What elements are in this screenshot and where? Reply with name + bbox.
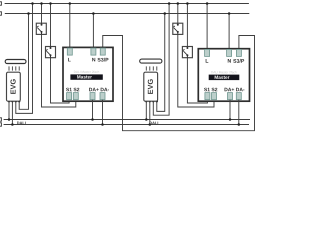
U2 faint product text bbox=[211, 71, 236, 73]
junction dot DA- bus x238 bbox=[238, 123, 241, 126]
U1 terminal S2 bbox=[73, 93, 78, 100]
wire EVG2 DA- bbox=[149, 101, 151, 124]
junction dot L rail x50.5 bbox=[49, 2, 52, 5]
U1 terminal S1 bbox=[67, 93, 72, 100]
wire U2 DA- to bus bbox=[238, 100, 240, 125]
U2 terminal DA+ bbox=[228, 93, 233, 100]
L rail terminal stub bbox=[0, 2, 1, 5]
junction dot DA- bus x102.5 bbox=[101, 123, 104, 126]
U1 terminal N bbox=[91, 48, 96, 55]
wire U1 DA- to bus bbox=[102, 100, 104, 125]
wire L to pushbutton T2 bbox=[50, 4, 52, 47]
wire EVG2 N loop bbox=[157, 14, 165, 112]
U2 label L bbox=[206, 59, 209, 63]
wire pushbutton T4 to S1 bbox=[187, 58, 207, 103]
lamp LP1 bbox=[5, 60, 26, 64]
lamp LP1 pins bbox=[9, 66, 19, 70]
wire L to pushbutton T1 bbox=[41, 4, 43, 24]
wire EVG1 N loop bbox=[19, 14, 28, 110]
pushbutton T3 box bbox=[173, 23, 183, 34]
junction dot DA- bus x149.8 bbox=[149, 123, 152, 126]
wire EVG1 DA- bbox=[11, 101, 13, 124]
U2 Master nameplate bbox=[209, 75, 240, 81]
wire L to pushbutton T3 bbox=[177, 4, 179, 24]
junction dot N rail x93.4 bbox=[92, 12, 95, 15]
U1 label S1 S2 bbox=[66, 88, 79, 92]
lamp LP2 bbox=[140, 59, 162, 63]
wire EVG2 DA+ bbox=[145, 101, 147, 119]
wire U2 DA+ to bus bbox=[229, 100, 231, 120]
wire L to pushbutton T4 bbox=[186, 4, 188, 47]
U1 terminal S3/P bbox=[100, 48, 105, 55]
EVG1 pin dots bbox=[8, 100, 21, 102]
junction dot DA+ bus x229 bbox=[229, 118, 232, 121]
lamp LP2 pins bbox=[146, 66, 157, 70]
S3/P net wire linking both masters bbox=[103, 36, 255, 131]
wire pushbutton T2 to S1 bbox=[51, 58, 70, 103]
U1 label S3/P bbox=[98, 58, 109, 62]
DALI bus DA+ line bbox=[4, 119, 250, 121]
junction dot L rail x177.8 bbox=[177, 2, 180, 5]
pushbutton T2 symbol bbox=[46, 47, 52, 58]
junction dot DA+ bus x92.5 bbox=[91, 118, 94, 121]
ballast EVG1 box bbox=[7, 72, 21, 101]
U2 terminal S3/P bbox=[236, 49, 241, 56]
U2 terminal S1 bbox=[205, 93, 210, 100]
pushbutton T4 box bbox=[182, 47, 192, 58]
U1 faint product text bbox=[74, 71, 99, 73]
pushbutton T1 symbol bbox=[37, 23, 43, 34]
U1 terminal L bbox=[67, 48, 72, 55]
U1 label L bbox=[68, 58, 71, 62]
U2 label S3/P bbox=[233, 59, 244, 63]
DALI label right bbox=[150, 122, 159, 125]
ballast EVG2 label bbox=[148, 79, 153, 94]
U2 label N bbox=[228, 59, 231, 63]
U2 label S1 S2 bbox=[204, 88, 217, 92]
U1 terminal DA+ bbox=[90, 93, 95, 100]
DALI bus DA+ terminal stub bbox=[0, 118, 1, 121]
junction dot L rail x32.5 bbox=[31, 2, 34, 5]
pushbutton T3 symbol bbox=[173, 23, 179, 34]
U2 label DA+ DA- bbox=[225, 88, 245, 91]
U2 Master nameplate text bbox=[215, 76, 230, 79]
U1 terminal DA- bbox=[100, 93, 105, 100]
ballast EVG2 box bbox=[144, 72, 158, 101]
U2 terminal DA- bbox=[236, 93, 241, 100]
L rail bbox=[5, 3, 249, 5]
U1 Master nameplate text bbox=[77, 75, 92, 78]
DALI master U2 box bbox=[198, 49, 249, 101]
junction dot N rail x28.5 bbox=[27, 12, 30, 15]
wire EVG2 L loop bbox=[153, 4, 169, 116]
pushbutton T1 box bbox=[36, 23, 46, 34]
junction dot DA- bus x12.4 bbox=[11, 123, 14, 126]
U2 terminal S2 bbox=[212, 93, 217, 100]
wire EVG1 L loop bbox=[16, 4, 33, 114]
wire N to master U1 bbox=[92, 14, 94, 48]
EVG2 pin dots bbox=[145, 100, 158, 102]
pushbutton T2 box bbox=[46, 47, 56, 58]
U1 label N bbox=[92, 58, 95, 62]
junction dot L rail x207.1 bbox=[206, 2, 209, 5]
U1 label DA+ DA- bbox=[89, 88, 109, 91]
junction dot N rail x164.75 bbox=[164, 12, 167, 15]
pushbutton T4 symbol bbox=[183, 47, 189, 58]
wire U1 DA+ to bus bbox=[92, 100, 94, 120]
DALI master U1 box bbox=[63, 47, 113, 101]
junction dot L rail x187.4 bbox=[186, 2, 189, 5]
ballast EVG1 label bbox=[10, 79, 15, 94]
wire L to master U1 bbox=[69, 4, 71, 48]
U2 terminal N bbox=[227, 49, 232, 56]
U1 Master nameplate bbox=[70, 74, 102, 79]
N rail bbox=[5, 13, 250, 15]
junction dot N rail x229.1 bbox=[228, 12, 231, 15]
junction dot L rail x169.1 bbox=[168, 2, 171, 5]
wire EVG1 DA+ bbox=[8, 101, 10, 119]
wire L to master U2 bbox=[206, 4, 208, 50]
junction dot L rail x41.5 bbox=[40, 2, 43, 5]
wire pushbutton T3 to S2 bbox=[178, 34, 214, 107]
N rail terminal stub bbox=[0, 12, 1, 15]
U2 terminal L bbox=[205, 49, 210, 56]
junction dot L rail x69.8 bbox=[69, 2, 72, 5]
DALI bus DA- terminal stub bbox=[0, 123, 1, 126]
DALI bus DA- line bbox=[4, 124, 249, 126]
wire pushbutton T1 to S2 bbox=[42, 34, 76, 107]
junction dot DA+ bus x146.3 bbox=[145, 118, 148, 121]
junction dot DA+ bus x9 bbox=[8, 118, 11, 121]
wire N to master U2 bbox=[228, 14, 230, 50]
DALI label left bbox=[17, 122, 26, 125]
